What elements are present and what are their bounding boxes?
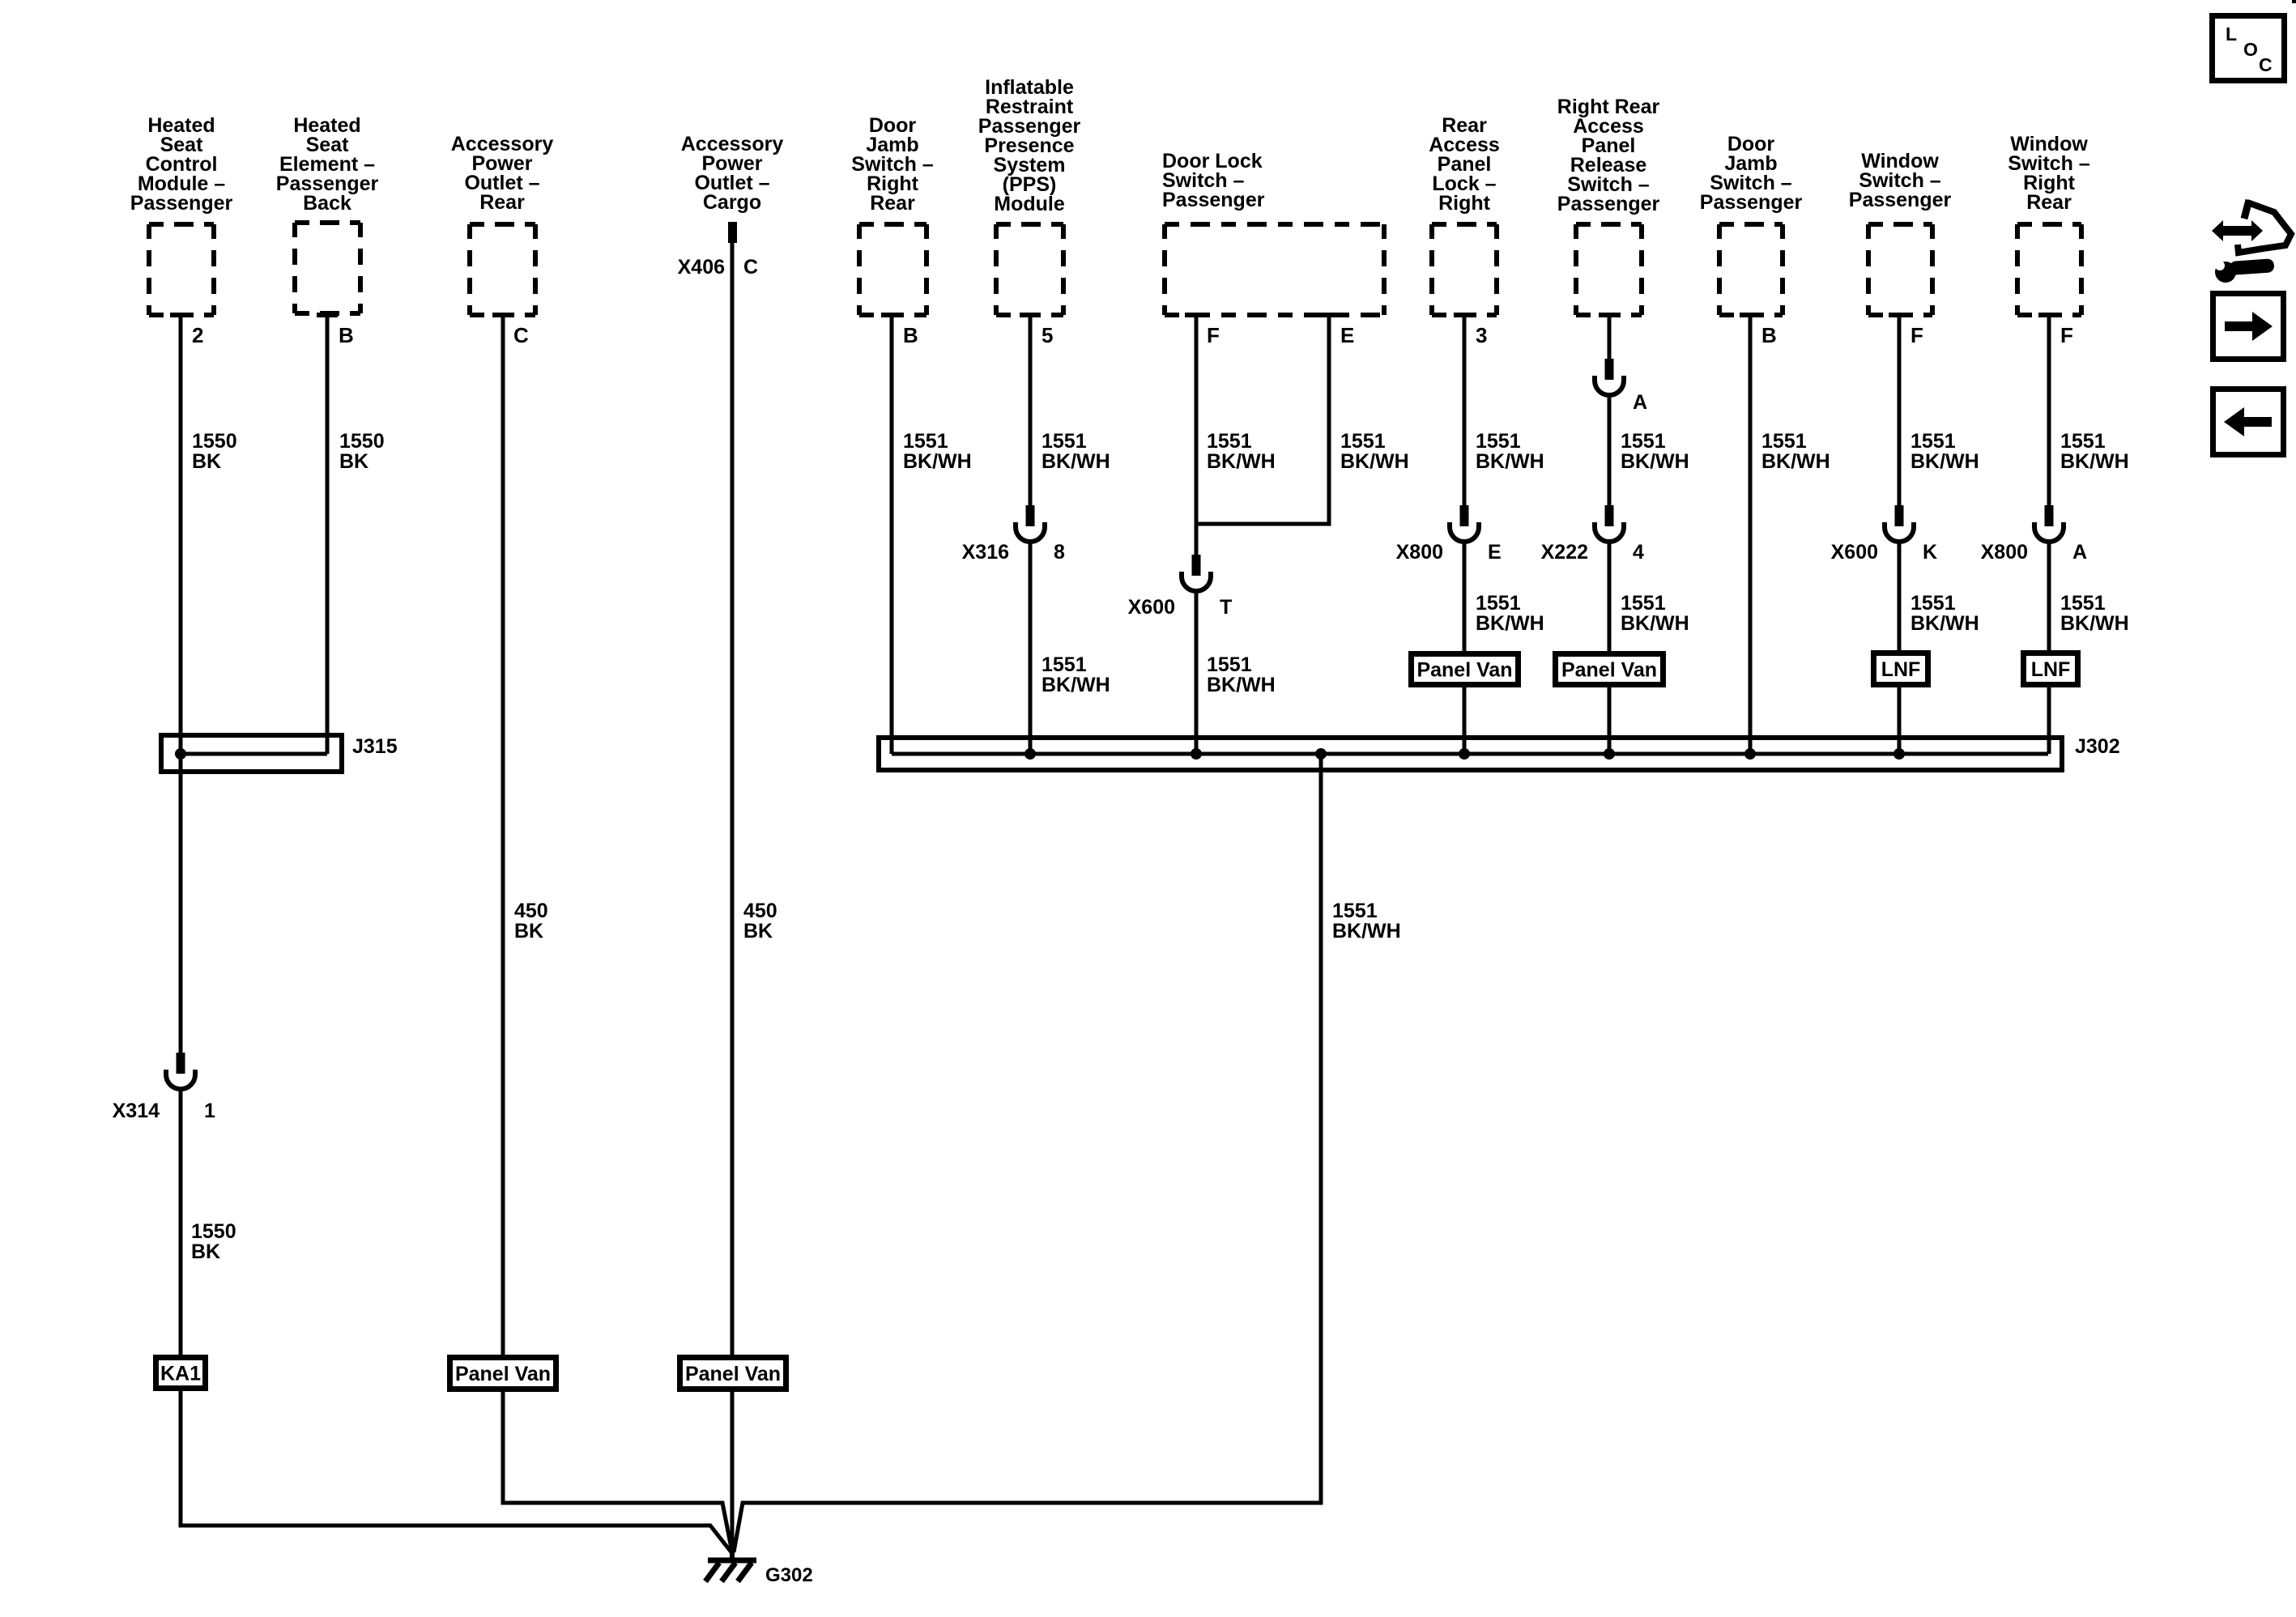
wire 450 BK from X406 pin C — [731, 243, 735, 1355]
wire 1551 BK/WH from X600 K to J302 — [1898, 541, 1902, 754]
svg-text:X222: X222 — [1541, 541, 1588, 564]
splice pack J302 — [879, 738, 2062, 770]
svg-text:B: B — [339, 323, 354, 347]
connector X800 pin E — [1396, 505, 1502, 564]
svg-text:1: 1 — [204, 1100, 215, 1122]
svg-text:A: A — [1633, 391, 1647, 414]
svg-text:G302: G302 — [765, 1564, 813, 1586]
connector X314 pin 1 — [113, 1053, 215, 1122]
wire from Right Rear Access Panel Release Switch — [1608, 317, 1612, 359]
pin stub Door Lock Switch pin F — [1185, 313, 1206, 317]
component Rear Access Panel Lock - Right (dashed box) — [1432, 224, 1497, 315]
pin stub Heated Seat Control Module pin 2 — [170, 313, 191, 317]
junction Door Jamb Passenger wire at J302 — [1744, 748, 1756, 760]
option box Panel Van (col8) — [1412, 654, 1519, 685]
component Door Lock Switch - Passenger (dashed box) — [1165, 224, 1384, 315]
svg-text:E: E — [1488, 541, 1502, 564]
svg-text:DoorJambSwitch –Passenger: DoorJambSwitch –Passenger — [1700, 133, 1803, 214]
svg-text:5: 5 — [1042, 323, 1053, 347]
wire 1551 BK/WH from X600 to J302 — [1195, 590, 1199, 754]
wire 1551 BK/WH from Window Switch Right Rear pin F — [2047, 317, 2051, 505]
svg-text:1551BK/WH: 1551BK/WH — [1621, 430, 1689, 473]
component Window Switch - Passenger (dashed box) — [1868, 224, 1932, 315]
pin stub Door Jamb Switch Passenger pin B — [1740, 313, 1761, 317]
svg-text:1551BK/WH: 1551BK/WH — [1042, 653, 1110, 696]
wire 1550 BK from Heated Seat Control Module pin 2 — [179, 317, 183, 1053]
svg-text:C: C — [743, 256, 758, 279]
svg-text:Panel Van: Panel Van — [1561, 659, 1657, 682]
svg-text:L: L — [2226, 23, 2237, 45]
svg-text:HeatedSeatElement –PassengerBa: HeatedSeatElement –PassengerBack — [276, 114, 379, 215]
svg-text:Door LockSwitch –Passenger: Door LockSwitch –Passenger — [1162, 150, 1265, 211]
component Door Jamb Switch - Passenger (dashed box) — [1719, 224, 1783, 315]
pin stub Accessory Power Outlet Rear pin C — [492, 313, 513, 317]
wire 1550 BK from Heated Seat Element pin B — [326, 316, 330, 754]
svg-text:LNF: LNF — [2031, 658, 2071, 681]
connector X222 pin 4 — [1541, 505, 1644, 564]
wire 1551 BK/WH from X800 to J302 — [1463, 541, 1467, 754]
option box Panel Van (col3) — [450, 1358, 556, 1389]
svg-text:1551BK/WH: 1551BK/WH — [1042, 430, 1110, 473]
junction Window Switch Passenger wire at J302 — [1893, 748, 1905, 760]
svg-text:AccessoryPowerOutlet –Cargo: AccessoryPowerOutlet –Cargo — [681, 133, 784, 214]
wire 1551 BK/WH from X316 to J302 — [1029, 541, 1033, 754]
wire 1551 BK/WH from X800 A to J302 — [2047, 541, 2051, 754]
pin stub PPS Module pin 5 — [1020, 313, 1041, 317]
svg-text:Panel Van: Panel Van — [455, 1363, 551, 1385]
svg-text:450BK: 450BK — [514, 900, 548, 943]
junction Rear Access Panel Lock wire at J302 — [1459, 748, 1470, 760]
svg-text:1551BK/WH: 1551BK/WH — [1910, 592, 1979, 635]
wire 1551 BK/WH from Window Switch Passenger pin F — [1898, 317, 1902, 505]
wire 1551 BK/WH from Door Jamb Switch Passenger — [1749, 317, 1753, 754]
svg-text:WindowSwitch –RightRear: WindowSwitch –RightRear — [2008, 133, 2090, 214]
junction PPS wire at J302 — [1024, 748, 1036, 760]
connector X600 pin K — [1831, 505, 1937, 564]
svg-text:X600: X600 — [1128, 596, 1175, 619]
icon double arrow with wrench (navigation) — [2212, 200, 2291, 283]
junction Release Switch wire at J302 — [1604, 748, 1615, 760]
junction at J315 splice — [175, 748, 186, 760]
wire 1551 BK/WH from Door Lock Switch pin E joining F — [1198, 317, 1329, 524]
svg-text:E: E — [1340, 323, 1354, 347]
wire 1551 BK/WH from J302 to G302 — [734, 754, 1321, 1552]
wire 1550 BK from KA1 to G302 — [181, 1391, 731, 1552]
svg-text:4: 4 — [1633, 541, 1644, 564]
wire 1551 BK/WH from Rear Access Panel Lock pin 3 — [1463, 317, 1467, 505]
svg-text:8: 8 — [1054, 541, 1065, 564]
pin stub Door Jamb Switch Right Rear pin B — [881, 313, 902, 317]
svg-text:F: F — [1910, 323, 1923, 347]
component Accessory Power Outlet - Rear (dashed box) — [470, 224, 535, 315]
svg-text:AccessoryPowerOutlet –Rear: AccessoryPowerOutlet –Rear — [451, 133, 554, 214]
pin stub Rear Access Panel Lock pin 3 — [1454, 313, 1475, 317]
wire 1551 BK/WH from Door Lock Switch pin F — [1195, 317, 1199, 555]
wire 1551 BK/WH from Door Jamb Switch Right Rear — [890, 317, 894, 754]
svg-text:X800: X800 — [1396, 541, 1443, 564]
svg-text:WindowSwitch –Passenger: WindowSwitch –Passenger — [1849, 150, 1952, 211]
pin stub Heated Seat Element pin B — [317, 313, 338, 317]
svg-text:K: K — [1923, 541, 1937, 564]
component Heated Seat Element - Passenger Back (dashed box) — [295, 223, 360, 313]
option box LNF (col12) — [2024, 653, 2078, 685]
junction ground feed at J302 — [1315, 748, 1327, 760]
svg-text:F: F — [1207, 323, 1220, 347]
wire 450 BK from Panel Van to G302 — [503, 1392, 732, 1552]
svg-text:1550BK: 1550BK — [339, 430, 385, 473]
svg-text:KA1: KA1 — [160, 1363, 201, 1385]
wire 1551 BK/WH from X222 to J302 — [1608, 541, 1612, 754]
svg-text:Panel Van: Panel Van — [685, 1363, 781, 1385]
svg-text:J302: J302 — [2075, 735, 2120, 758]
component Door Jamb Switch - Right Rear (dashed box) — [859, 224, 926, 315]
svg-text:1551BK/WH: 1551BK/WH — [1476, 430, 1544, 473]
option box Panel Van (col9) — [1556, 654, 1663, 685]
page corner tick — [2292, 0, 2296, 3]
svg-text:Panel Van: Panel Van — [1416, 659, 1512, 682]
svg-text:B: B — [903, 323, 918, 347]
nav box arrow right — [2213, 294, 2284, 360]
svg-text:1550BK: 1550BK — [192, 430, 237, 473]
svg-text:1551BK/WH: 1551BK/WH — [1332, 900, 1401, 943]
svg-text:T: T — [1220, 596, 1232, 619]
connector pin A (component pigtail) — [1595, 359, 1647, 414]
connector X800 pin A — [1981, 505, 2087, 564]
svg-text:O: O — [2243, 39, 2258, 60]
svg-text:X600: X600 — [1831, 541, 1878, 564]
svg-text:1551BK/WH: 1551BK/WH — [1207, 430, 1276, 473]
wire 450 BK from Panel Van to G302 — [731, 1392, 735, 1553]
component Heated Seat Control Module - Passenger (dashed box) — [149, 224, 214, 315]
svg-text:1551BK/WH: 1551BK/WH — [1621, 592, 1689, 635]
svg-text:1551BK/WH: 1551BK/WH — [1207, 653, 1276, 696]
svg-text:1551BK/WH: 1551BK/WH — [903, 430, 972, 473]
svg-text:F: F — [2060, 323, 2073, 347]
svg-text:A: A — [2072, 541, 2087, 564]
svg-text:DoorJambSwitch –RightRear: DoorJambSwitch –RightRear — [851, 114, 934, 215]
svg-text:3: 3 — [1476, 323, 1487, 347]
svg-text:InflatableRestraintPassengerPr: InflatableRestraintPassengerPresenceSyst… — [978, 76, 1081, 215]
svg-text:2: 2 — [192, 323, 203, 347]
component Inflatable Restraint PPS Module (dashed box) — [996, 224, 1063, 315]
pin stub Right Rear Access Panel Release Switch — [1599, 313, 1620, 317]
wire 1551 BK/WH below pin A connector — [1608, 394, 1612, 505]
pin stub Window Switch Passenger pin F — [1889, 313, 1910, 317]
option box KA1 — [156, 1358, 206, 1389]
svg-text:LNF: LNF — [1881, 658, 1921, 681]
pin stub Window Switch Right Rear pin F — [2038, 313, 2060, 317]
option box Panel Van (col4) — [680, 1358, 786, 1389]
wire 1551 BK/WH from PPS Module pin 5 — [1029, 317, 1033, 505]
svg-text:J315: J315 — [352, 735, 398, 758]
splice pack J315 — [161, 735, 342, 772]
ground G302 — [705, 1550, 756, 1581]
svg-text:1551BK/WH: 1551BK/WH — [1340, 430, 1409, 473]
svg-text:1551BK/WH: 1551BK/WH — [2060, 430, 2129, 473]
svg-text:Right RearAccessPanelReleaseSw: Right RearAccessPanelReleaseSwitch –Pass… — [1557, 96, 1660, 215]
svg-text:1551BK/WH: 1551BK/WH — [1761, 430, 1830, 473]
wire 450 BK from Accessory Power Outlet Rear — [501, 317, 505, 1355]
component Window Switch - Right Rear (dashed box) — [2017, 224, 2081, 315]
svg-text:X800: X800 — [1981, 541, 2028, 564]
option box LNF (col11) — [1874, 653, 1928, 685]
svg-text:RearAccessPanelLock –Right: RearAccessPanelLock –Right — [1429, 114, 1500, 215]
connector X316 pin 8 — [962, 505, 1065, 564]
connector X406 pin C (stub) — [728, 222, 737, 243]
svg-text:X316: X316 — [962, 541, 1009, 564]
svg-text:C: C — [513, 323, 529, 347]
svg-text:C: C — [2259, 54, 2273, 75]
svg-text:1551BK/WH: 1551BK/WH — [2060, 592, 2129, 635]
wire 1550 BK to KA1 — [179, 1088, 183, 1355]
svg-text:B: B — [1761, 323, 1777, 347]
junction Door Lock wire at J302 — [1191, 748, 1202, 760]
svg-text:450BK: 450BK — [743, 900, 777, 943]
svg-text:HeatedSeatControlModule –Passe: HeatedSeatControlModule –Passenger — [130, 114, 233, 215]
svg-text:1550BK: 1550BK — [191, 1220, 236, 1263]
svg-text:1551BK/WH: 1551BK/WH — [1476, 592, 1544, 635]
svg-text:X314: X314 — [113, 1100, 160, 1122]
svg-text:1551BK/WH: 1551BK/WH — [1910, 430, 1979, 473]
nav box arrow left — [2213, 389, 2284, 455]
svg-text:X406: X406 — [678, 256, 725, 279]
pin stub Door Lock Switch pin E — [1318, 313, 1340, 317]
component Right Rear Access Panel Release Switch (dashed box) — [1576, 224, 1642, 315]
connector X600 pin T — [1128, 555, 1233, 619]
legend box LOC — [2213, 16, 2285, 81]
